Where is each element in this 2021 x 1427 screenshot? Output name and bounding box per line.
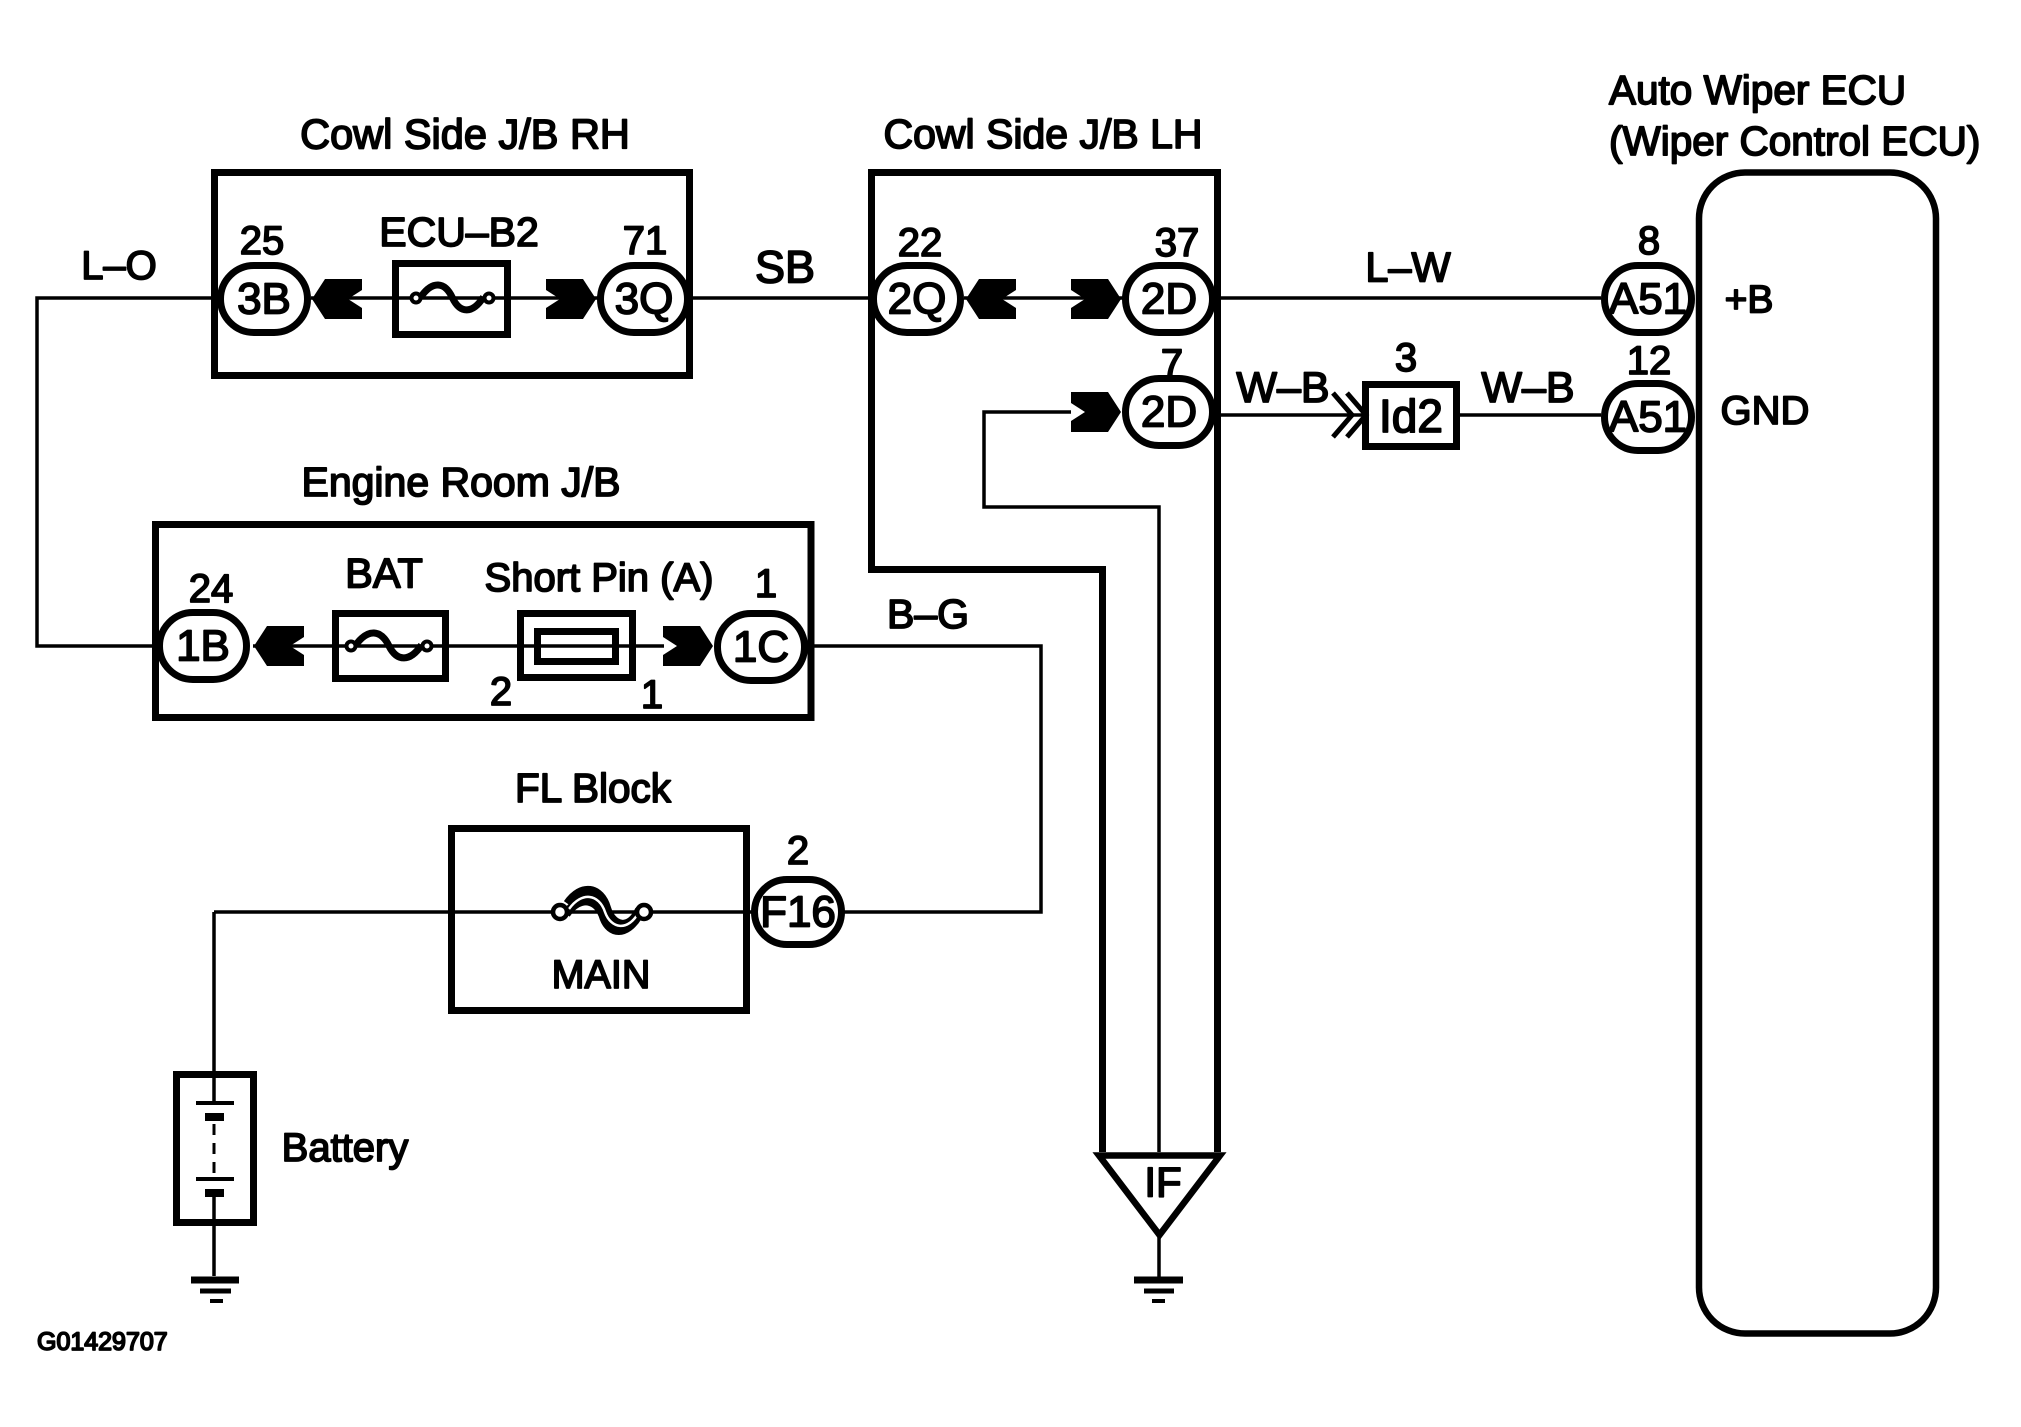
- battery box: [177, 1075, 254, 1223]
- svg-text:8: 8: [1638, 219, 1660, 263]
- svg-text:2: 2: [787, 829, 809, 873]
- arrow into 2D pin37 (points right): [1071, 279, 1121, 319]
- junction block box: Cowl Side J/B LH (bottom step outline): [868, 570, 1103, 1153]
- fuse box ECU-B2: [396, 264, 508, 335]
- svg-text:Cowl Side J/B LH: Cowl Side J/B LH: [883, 111, 1202, 157]
- ground symbol (battery): [191, 1280, 239, 1301]
- title Cowl Side J/B RH: [300, 111, 630, 158]
- wire battery negative lead to ground: [212, 1196, 216, 1276]
- wire battery positive lead (vertical): [212, 912, 216, 1103]
- svg-text:12: 12: [1627, 339, 1672, 383]
- pin number 2 (short pin left): [490, 670, 512, 714]
- short pin (A) inner bar: [538, 632, 616, 662]
- svg-text:F16: F16: [760, 888, 836, 937]
- svg-text:MAIN: MAIN: [552, 953, 651, 997]
- title Cowl Side J/B LH: [883, 111, 1202, 157]
- label Short Pin (A): [485, 556, 714, 600]
- fuse box BAT: [336, 614, 446, 679]
- svg-text:2: 2: [490, 670, 512, 714]
- connector A51 pin 8: [1605, 266, 1692, 333]
- arrow into 1C (points right): [663, 626, 713, 666]
- svg-text:7: 7: [1161, 342, 1183, 386]
- pin number 37: [1155, 221, 1200, 265]
- wire color W-B (right): [1481, 364, 1574, 412]
- pin number 22: [898, 221, 943, 265]
- svg-text:B–G: B–G: [887, 591, 969, 637]
- connector 3B pin 25: [221, 266, 308, 333]
- fuse element ECU-B2: [412, 285, 494, 310]
- connector 1B pin 24: [160, 613, 247, 680]
- title Engine Room J/B: [301, 459, 620, 505]
- arrow into 3B (points left): [312, 279, 362, 319]
- figure number G01429707: [37, 1328, 168, 1356]
- wire color B-G: [887, 591, 969, 637]
- junction block box: Cowl Side J/B LH (left/top/right outline): [872, 173, 1218, 1153]
- svg-text:3B: 3B: [237, 275, 291, 324]
- title (Wiper Control ECU): [1609, 118, 1980, 164]
- ground symbol (IF): [1134, 1280, 1183, 1301]
- svg-text:Cowl Side J/B RH: Cowl Side J/B RH: [300, 111, 630, 158]
- battery cell plates: [196, 1103, 234, 1193]
- svg-text:G01429707: G01429707: [37, 1328, 168, 1356]
- junction block box: Cowl Side J/B RH: [215, 173, 690, 376]
- wire L-O: 3B to left then down to 1B: [37, 298, 217, 646]
- svg-text:22: 22: [898, 221, 943, 265]
- svg-text:GND: GND: [1721, 389, 1810, 433]
- arrow into 1B (points left): [254, 626, 304, 666]
- svg-text:2D: 2D: [1141, 275, 1197, 324]
- wire row inside Engine Room J/B (1B to 1C): [253, 644, 664, 648]
- connector box Id2: [1366, 385, 1457, 447]
- connector F16 pin 2: [755, 880, 842, 945]
- svg-text:Engine Room J/B: Engine Room J/B: [301, 459, 620, 505]
- svg-text:37: 37: [1155, 221, 1200, 265]
- title Auto Wiper ECU: [1609, 67, 1906, 113]
- arrow into 2D pin7 (points right): [1071, 392, 1121, 432]
- svg-text:Short Pin (A): Short Pin (A): [485, 556, 714, 600]
- svg-text:2D: 2D: [1141, 388, 1197, 437]
- svg-text:ECU–B2: ECU–B2: [379, 209, 539, 255]
- svg-text:3: 3: [1395, 336, 1417, 380]
- wire L-W: 2D to A51 pin 8: [1216, 296, 1601, 300]
- arrow at 2Q (points left): [966, 279, 1016, 319]
- connector 2D pin 37: [1126, 266, 1213, 333]
- svg-text:SB: SB: [755, 242, 815, 293]
- svg-text:3Q: 3Q: [615, 275, 674, 324]
- svg-text:Battery: Battery: [282, 1126, 409, 1170]
- fusible link element MAIN: [553, 891, 651, 931]
- pin number 12: [1627, 339, 1672, 383]
- wire SB: 3Q to 2Q: [690, 296, 871, 300]
- svg-text:W–B: W–B: [1236, 364, 1329, 412]
- wire IF to ground: [1157, 1235, 1161, 1277]
- ECU pin name GND: [1721, 389, 1810, 433]
- fuse label ECU-B2: [379, 209, 539, 255]
- svg-text:2Q: 2Q: [888, 275, 947, 324]
- svg-text:24: 24: [189, 567, 234, 611]
- connector 2Q pin 22: [874, 266, 961, 333]
- svg-text:1B: 1B: [176, 622, 230, 671]
- label Id2: [1379, 390, 1443, 442]
- svg-text:L–W: L–W: [1365, 244, 1451, 291]
- pin number 71: [623, 219, 668, 263]
- svg-text:1: 1: [755, 562, 777, 606]
- junction block box: Engine Room J/B: [156, 525, 812, 718]
- wire W-B: 2D pin7 to Id2 to A51 pin 12: [1216, 413, 1601, 417]
- short pin (A) outer box: [521, 614, 633, 678]
- wire color L-W: [1365, 244, 1451, 291]
- svg-text:W–B: W–B: [1481, 364, 1574, 412]
- fusible link block box: FL Block: [452, 829, 747, 1011]
- svg-text:1C: 1C: [733, 623, 789, 672]
- chevron splice marker before Id2: [1333, 393, 1366, 437]
- pin number 1 (short pin right): [641, 673, 663, 717]
- svg-text:FL Block: FL Block: [515, 765, 672, 811]
- svg-text:(Wiper Control ECU): (Wiper Control ECU): [1609, 118, 1980, 164]
- svg-text:Auto Wiper ECU: Auto Wiper ECU: [1609, 67, 1906, 113]
- wire color L-O: [81, 244, 157, 288]
- svg-text:1: 1: [641, 673, 663, 717]
- pin number 3: [1395, 336, 1417, 380]
- svg-text:25: 25: [240, 219, 285, 263]
- fuse element BAT: [347, 633, 432, 658]
- arrow into 3Q (points right): [546, 279, 596, 319]
- fuse label BAT: [345, 550, 423, 597]
- title FL Block: [515, 765, 672, 811]
- ground point IF triangle: [1099, 1156, 1220, 1236]
- pin number 7: [1161, 342, 1183, 386]
- pin number 25: [240, 219, 285, 263]
- fusible link label MAIN: [552, 953, 651, 997]
- connector 3Q pin 71: [601, 266, 688, 333]
- pin number 1 (connector 1C): [755, 562, 777, 606]
- svg-text:71: 71: [623, 219, 668, 263]
- label Battery: [282, 1126, 409, 1170]
- wire battery to FL Block MAIN to F16: [214, 910, 760, 914]
- svg-text:A51: A51: [1609, 393, 1687, 442]
- ECU box: Auto Wiper ECU (Wiper Control ECU): [1699, 173, 1936, 1334]
- svg-text:Id2: Id2: [1379, 390, 1443, 442]
- wire color W-B (left): [1236, 364, 1329, 412]
- svg-text:BAT: BAT: [345, 550, 423, 597]
- wire color SB: [755, 242, 815, 293]
- wire B-G: 1C right then down to F16: [808, 646, 1041, 912]
- wire internal: 2D pin7 down to IF ground channel: [984, 412, 1159, 1152]
- connector 1C pin 1: [718, 614, 805, 681]
- wire row1 inside Cowl Side J/B RH (3B to 3Q through ECU-B2): [311, 296, 598, 300]
- pin number 8: [1638, 219, 1660, 263]
- connector A51 pin 12: [1605, 384, 1692, 451]
- connector 2D pin 7: [1126, 379, 1213, 446]
- svg-text:+B: +B: [1725, 279, 1774, 322]
- pin number 24: [189, 567, 234, 611]
- svg-text:A51: A51: [1609, 275, 1687, 324]
- wire inside Cowl Side J/B LH (2Q to 2D): [964, 296, 1123, 300]
- ECU pin name +B: [1725, 279, 1774, 322]
- svg-text:IF: IF: [1144, 1159, 1181, 1206]
- pin number 2 (connector F16): [787, 829, 809, 873]
- svg-text:L–O: L–O: [81, 244, 157, 288]
